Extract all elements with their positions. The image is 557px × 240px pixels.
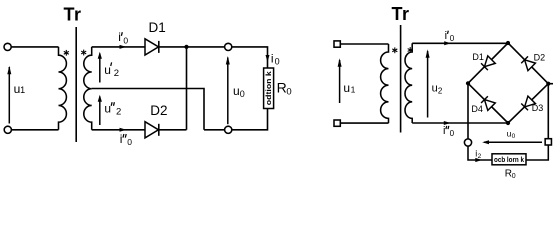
wire: bridge edge top-left <box>468 43 508 83</box>
core (left Tr) <box>75 27 77 142</box>
junction: bridge left node <box>466 81 470 85</box>
svg-text:Tr: Tr <box>392 4 410 24</box>
terminal: output left (right circuit, circle) <box>464 139 471 146</box>
svg-text:Tr: Tr <box>64 5 82 25</box>
diode D2 (bridge) <box>525 60 536 71</box>
terminal: input bottom-left (right circuit, square) <box>334 120 340 126</box>
svg-text:i: i <box>443 125 445 137</box>
svg-text:i: i <box>118 30 121 44</box>
wire: bridge edge bottom-right <box>508 84 548 123</box>
wire: secondary top rail to D1 <box>92 46 145 48</box>
resistor R0 (right circuit) <box>492 154 526 165</box>
voltage arrow u"2 <box>99 97 101 126</box>
svg-text:0: 0 <box>127 137 132 147</box>
svg-text:i: i <box>271 51 274 65</box>
svg-text:R: R <box>277 79 287 95</box>
svg-text:D2: D2 <box>534 53 546 63</box>
voltage arrow u'2 <box>99 54 101 83</box>
wire: secondary bottom rail to D2 <box>92 129 145 131</box>
svg-text:D1: D1 <box>149 20 166 35</box>
wire: D1 cathode to output top <box>159 46 225 48</box>
terminal: input bottom-left <box>4 126 11 133</box>
secondary winding with center tap (left Tr) <box>84 47 92 130</box>
svg-text:1: 1 <box>20 85 25 95</box>
svg-text:0: 0 <box>275 56 280 66</box>
core (right Tr) <box>400 25 402 133</box>
terminal: output top (left circuit) <box>225 43 232 50</box>
resistor R0 (left circuit) <box>264 68 274 109</box>
current arrow i"0 <box>120 128 127 132</box>
svg-text:0: 0 <box>286 87 291 98</box>
wire: load to output right terminal <box>526 145 548 160</box>
polarity mark: secondary (left) <box>83 50 85 56</box>
diode D4 (bridge) <box>484 100 495 111</box>
wire: stub right of bridge right node <box>548 83 553 85</box>
junction: D1/D2 common node <box>184 45 188 49</box>
current arrow i2 (load) <box>475 158 482 162</box>
junction: bridge right node <box>546 82 550 86</box>
wire: D2 cathode to junction riser <box>159 129 187 131</box>
svg-text:2: 2 <box>116 107 121 118</box>
wire: bridge edge bottom-left <box>468 83 508 123</box>
voltage arrow u0 (left circuit) <box>227 58 229 125</box>
wire: output bottom rail to center-tap corner <box>204 129 225 131</box>
svg-text:u: u <box>343 81 350 95</box>
svg-text:0: 0 <box>240 89 245 99</box>
current arrow i'0 <box>120 45 127 49</box>
voltage arrow u1 (right) <box>339 60 341 103</box>
polarity mark: secondary (right) <box>409 47 411 53</box>
voltage arrow u2 <box>427 51 429 118</box>
current arrow i0 <box>266 55 270 62</box>
svg-text:0: 0 <box>450 129 455 138</box>
svg-text:odtion k: odtion k <box>266 71 273 105</box>
primary winding (right Tr) <box>381 44 389 123</box>
svg-text:0: 0 <box>450 34 455 43</box>
voltage arrow u1 (left) <box>8 67 10 124</box>
svg-text:0: 0 <box>512 133 516 140</box>
wire: secondary top rail to bridge <box>412 42 508 44</box>
wire: bridge left node down to output terminal <box>467 83 469 139</box>
svg-text:D2: D2 <box>150 103 167 118</box>
wire: bottom input to primary (right) <box>340 122 388 124</box>
svg-text:ocb lorn k: ocb lorn k <box>494 157 524 164</box>
svg-text:2: 2 <box>438 86 443 95</box>
wire: junction down to D2 branch <box>186 47 188 130</box>
polarity mark: primary (left) <box>65 50 67 56</box>
svg-text:1: 1 <box>351 84 356 94</box>
terminal: output bottom (left circuit) <box>225 126 232 133</box>
svg-text:i: i <box>445 30 447 42</box>
svg-text:D4: D4 <box>471 104 483 114</box>
wire: output top rail to R0 branch <box>232 47 268 68</box>
svg-text:0: 0 <box>512 173 516 180</box>
terminal: input top-left <box>4 43 11 50</box>
wire: secondary bottom rail to bridge <box>412 122 508 124</box>
wire: top-left input to primary <box>11 46 58 48</box>
wire: R0 bottom to output bottom rail <box>232 109 268 130</box>
terminal: input top-left (right circuit, square) <box>334 41 340 47</box>
svg-text:u: u <box>104 63 111 77</box>
wire: output left terminal down to load <box>468 146 492 160</box>
junction: bridge top node <box>506 41 510 45</box>
svg-text:u: u <box>104 102 111 116</box>
svg-text:0: 0 <box>123 35 128 45</box>
svg-text:D1: D1 <box>472 52 484 62</box>
svg-text:i: i <box>120 132 123 146</box>
wire: bottom-left input to primary <box>11 129 58 131</box>
svg-text:D3: D3 <box>532 103 544 113</box>
secondary winding (right Tr) <box>405 43 412 123</box>
svg-text:2: 2 <box>114 68 119 79</box>
wire: top input to primary (right) <box>340 43 388 45</box>
current arrow i"2 (bottom) <box>444 121 451 125</box>
wire: center tap <box>92 89 204 130</box>
terminal: output right (right circuit, square) <box>545 139 551 145</box>
svg-text:u: u <box>432 83 438 95</box>
svg-text:u: u <box>233 84 240 98</box>
primary winding (left Tr) <box>59 47 67 130</box>
current arrow i'2 (top) <box>444 41 451 45</box>
voltage arrow u0 (right circuit) <box>484 141 542 143</box>
polarity mark: primary (right) <box>394 47 396 53</box>
svg-text:2: 2 <box>478 153 482 160</box>
diode D3 (bridge) <box>525 96 536 107</box>
wire: bridge right node down to output terminal <box>547 84 549 139</box>
diode D2 (left circuit) <box>145 122 159 138</box>
wire: bridge edge top-right <box>508 43 548 84</box>
diode D1 (bridge) <box>484 56 495 67</box>
junction: bridge bottom node <box>506 121 510 125</box>
diode D1 (left circuit) <box>145 39 159 55</box>
